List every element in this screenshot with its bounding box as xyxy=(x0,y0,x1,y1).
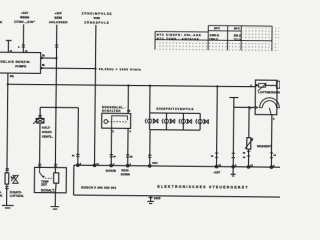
injector bottom bus xyxy=(150,129,200,132)
svg-text:WENN: WENN xyxy=(20,15,29,19)
svg-text:START-: START- xyxy=(42,130,52,134)
svg-text:NTC TEMP : ANZEIGE: NTC TEMP : ANZEIGE xyxy=(157,37,199,41)
junction dot rail start xyxy=(7,83,9,85)
relay pin 85 wire to pulse line xyxy=(41,67,96,70)
relay pin 50 wire to anlassen line xyxy=(41,57,57,59)
injector 2 xyxy=(162,113,175,130)
relay fuel pump box xyxy=(0,52,41,73)
connector ticks on ignition wire xyxy=(22,45,25,47)
svg-text:BEIM: BEIM xyxy=(54,15,62,19)
svg-text:87b: 87b xyxy=(10,76,15,78)
injector 3 xyxy=(179,113,192,130)
cold start valve symbol xyxy=(37,118,44,123)
svg-text:12/24: 12/24 xyxy=(152,161,158,164)
svg-text:33,33Hz = 1000 U/min: 33,33Hz = 1000 U/min xyxy=(99,67,141,71)
svg-text:SCHALT.: SCHALT. xyxy=(41,188,55,192)
svg-text:ZÜND.„EIN": ZÜND.„EIN" xyxy=(14,19,36,24)
zusatzluftschieber resistor xyxy=(5,173,9,184)
afm series resistor right edge xyxy=(276,81,279,88)
halftone dot regions xyxy=(157,41,279,52)
svg-text:E: E xyxy=(0,20,2,24)
svg-text:LUFTMENGEN: LUFTMENGEN xyxy=(258,90,280,94)
+12V rail xyxy=(8,84,256,86)
resistance table xyxy=(155,25,272,51)
relay pin 87b wire down to pump branch xyxy=(6,73,9,173)
svg-text:ANLASSEN: ANLASSEN xyxy=(49,20,68,24)
svg-text:SCHUB: SCHUB xyxy=(106,168,116,172)
ground symbol inside ECU at pin 5 xyxy=(231,168,236,176)
svg-text:1300 Ω: 1300 Ω xyxy=(209,37,219,41)
ECU box xyxy=(74,165,282,197)
throttle switch internals xyxy=(104,120,108,124)
pump branch ground xyxy=(6,184,8,205)
svg-text:2.830 Ω: 2.830 Ω xyxy=(209,33,220,37)
air flow meter box xyxy=(255,80,277,115)
svg-text:LUFTSCH.: LUFTSCH. xyxy=(10,194,25,198)
svg-text:20°C: 20°C xyxy=(214,26,220,30)
svg-text:SCHALTER: SCHALTER xyxy=(102,109,121,113)
connector ticks on anlassen wire xyxy=(55,45,58,47)
throttle switch feed from rail xyxy=(127,85,129,113)
svg-text:+12V: +12V xyxy=(213,170,220,174)
rail junction dots xyxy=(127,84,129,86)
sensor common wire to AFM xyxy=(234,106,255,108)
thermo time switch box xyxy=(34,167,66,193)
throttle switch bottom pin wires xyxy=(110,128,112,165)
injector top bus xyxy=(150,112,200,115)
injector return wire to ECU xyxy=(149,130,151,166)
injector feed from rail xyxy=(149,86,151,113)
terminal 31 T-bar above relay xyxy=(6,40,12,52)
wire kaltstart node to ECU pin xyxy=(77,108,80,165)
injector 1 xyxy=(145,113,158,130)
svg-text:ZÜNDSPULE: ZÜNDSPULE xyxy=(84,19,109,24)
tts switch blade xyxy=(39,167,44,178)
svg-text:1B: 1B xyxy=(127,111,130,113)
svg-text:ZEIT: ZEIT xyxy=(41,183,47,187)
svg-text:BOSCH 0 280 000 301: BOSCH 0 280 000 301 xyxy=(81,185,116,189)
junction pulse wire / relay 85 xyxy=(94,68,96,70)
ECU ground pins 13/25 below box xyxy=(147,196,154,204)
tts top connector ticks xyxy=(38,164,57,166)
wire +12V ignition to relay pin 15 xyxy=(22,24,24,52)
kaltstart valve wire xyxy=(39,107,42,167)
wire +12V anlassen terminal 50 xyxy=(55,25,56,168)
afm bottom pin wire to ECU xyxy=(270,115,273,167)
svg-text:DOWN: DOWN xyxy=(121,172,130,176)
zusatzluftschieber valve hourglass xyxy=(13,175,18,183)
connector ticks pump branch xyxy=(6,169,9,170)
svg-text:VENTIL.: VENTIL. xyxy=(42,134,53,138)
ECU pin numbers xyxy=(80,163,276,168)
svg-text:EINSPRITZVENTILE: EINSPRITZVENTILE xyxy=(156,107,193,111)
kaltstart branch horizontal xyxy=(40,106,78,108)
svg-text:VON: VON xyxy=(93,16,100,20)
svg-text:NTC EINSPR: ANL.AGE: NTC EINSPR: ANL.AGE xyxy=(157,33,201,37)
wire rail to ECU +12V pin xyxy=(215,86,218,166)
tts ground xyxy=(54,193,56,207)
afm wiper xyxy=(269,108,271,115)
node label +12V BEIM ANLASSEN xyxy=(49,11,68,24)
svg-text:WASSERT.: WASSERT. xyxy=(257,144,272,148)
water temp sensor NTC xyxy=(247,107,250,166)
node label +12V WENN ZUEND EIN xyxy=(14,11,36,24)
svg-text:PUMPE: PUMPE xyxy=(15,64,26,68)
svg-text:80°C: 80°C xyxy=(234,26,240,30)
shield T-bar node xyxy=(229,97,239,166)
afm potentiometer xyxy=(255,84,258,86)
svg-text:111 Ω: 111 Ω xyxy=(234,37,242,41)
injector 4 xyxy=(196,113,209,130)
svg-text:2B: 2B xyxy=(130,156,133,158)
ECU pins xyxy=(77,164,273,168)
junction anlassen / relay 50 xyxy=(55,57,57,59)
svg-text:252 Ω: 252 Ω xyxy=(234,33,242,37)
svg-text:13/25: 13/25 xyxy=(154,196,161,200)
afm vane arcs xyxy=(260,98,280,108)
tts heater resistor xyxy=(54,173,59,183)
svg-text:PE: PE xyxy=(0,194,2,198)
throttle switch box xyxy=(102,113,131,128)
wire ignition pulses to ECU xyxy=(94,25,95,165)
node label ZUENDIMPULSE VON ZUENDSPULE xyxy=(82,10,112,24)
